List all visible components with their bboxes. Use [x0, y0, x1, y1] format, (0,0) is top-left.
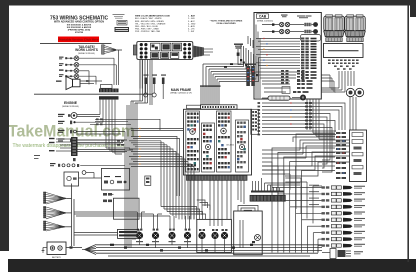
legend text block — [135, 15, 196, 34]
svg-text:3 - ACC: 3 - ACC — [188, 20, 196, 23]
central right connector — [251, 109, 259, 134]
headlight assembly left — [324, 15, 345, 42]
work light rows (4 lamps) — [59, 56, 116, 79]
page border right line — [407, 5, 409, 262]
wire to solenoid row 5 — [296, 212, 322, 214]
cab lamp row labels — [281, 15, 312, 19]
left bus down — [72, 184, 75, 247]
wire to solenoid row 9 — [318, 238, 322, 240]
fuel shutoff box — [102, 168, 130, 190]
cab lower pin rows — [293, 71, 309, 93]
solenoid feed bus — [74, 212, 170, 235]
cab interior lower wires — [256, 72, 300, 94]
cab wire rows to right connectors — [256, 39, 300, 69]
left small box component — [64, 171, 102, 186]
cab right connector column — [301, 38, 317, 70]
inline connector pair above central assembly — [245, 64, 256, 87]
svg-text:BATTERY: BATTERY — [52, 256, 62, 259]
bottom strip drop wires — [190, 180, 244, 226]
cab to center staircase — [203, 36, 259, 87]
fan-out connector F3 — [44, 221, 72, 231]
solenoid B1 — [255, 235, 261, 241]
central pin column 1 — [186, 111, 200, 172]
bulb 4 — [356, 18, 363, 31]
wires instrument to central — [262, 134, 350, 176]
wire to solenoid row 3 — [284, 199, 322, 201]
fuse drop bundle — [131, 59, 152, 105]
instrument left connector stack — [336, 132, 346, 179]
svg-text:CAB: CAB — [259, 15, 267, 19]
center-left wire rows — [129, 141, 206, 220]
headlight round plugs — [346, 88, 363, 96]
module harness left pin pairs — [258, 102, 261, 135]
fuse panel FP1 — [133, 42, 192, 60]
wire to solenoid row 10 — [318, 245, 322, 247]
fuse cell F3 — [171, 52, 179, 58]
center-left wire ticks — [117, 140, 124, 146]
note text — [210, 20, 243, 26]
temp sender — [58, 130, 125, 134]
svg-text:1 - BAT: 1 - BAT — [188, 15, 196, 18]
lamp L1 — [74, 56, 79, 61]
scan frame left bar — [0, 0, 9, 251]
svg-text:YEL - YELLOW / ORG - ORANGE: YEL - YELLOW / ORG - ORANGE — [135, 22, 166, 25]
cab dome lamp row2 — [262, 29, 318, 34]
svg-text:S/N 515830001 & ABOVE: S/N 515830001 & ABOVE — [67, 23, 92, 26]
barcode riser bundle — [201, 87, 219, 105]
tailgate fan connector — [102, 45, 123, 54]
alternator — [58, 113, 100, 119]
bottom hatched strip — [250, 191, 285, 202]
main left bus — [125, 101, 137, 248]
bottom bus — [96, 245, 322, 256]
row left labels — [309, 185, 319, 205]
colored pin accents central columns — [187, 116, 246, 168]
small sensor mid — [145, 176, 151, 185]
engine connector bar below divider — [99, 96, 119, 99]
solenoid box A — [197, 219, 232, 252]
central pin column 4 — [236, 120, 249, 172]
CAB label — [257, 14, 274, 23]
central pin column 3 — [217, 111, 235, 172]
solenoid row — [34, 155, 191, 248]
wire to solenoid row 4 — [290, 206, 322, 208]
tailgate section header — [75, 45, 98, 55]
central bottom strip — [187, 175, 248, 180]
svg-text:(SERIAL 512816001): (SERIAL 512816001) — [62, 105, 79, 108]
tailgate connector bar CN1 — [99, 85, 119, 93]
cab wiper motor cylinder — [262, 96, 290, 100]
fan-out connector F1 — [44, 192, 72, 204]
tailgate right bus — [89, 50, 142, 89]
key switch component — [234, 44, 244, 65]
central pin column 2 — [202, 123, 215, 172]
wires cab right exits — [322, 75, 337, 92]
relay cell R1 — [151, 43, 160, 51]
svg-text:PNK - PINK / GRY - GRAY: PNK - PINK / GRY - GRAY — [135, 28, 159, 31]
starter connector — [58, 121, 103, 125]
wires cab bottom to instrument box — [307, 97, 356, 139]
main frame sensors — [144, 75, 167, 100]
title 753 WIRING SCHEMATIC — [50, 16, 108, 35]
CAB box — [254, 13, 321, 100]
svg-text:* NOTE: THESE ARE NOT WIRES: * NOTE: THESE ARE NOT WIRES — [210, 20, 243, 23]
left lamp row components — [50, 163, 125, 167]
svg-text:(PRINTED APRIL 2005): (PRINTED APRIL 2005) — [68, 29, 91, 32]
cab lighter plug — [292, 95, 306, 101]
svg-text:6724799: 6724799 — [75, 31, 84, 34]
module harness rows below cab — [262, 103, 345, 172]
headlight base — [324, 31, 345, 37]
strip riser wires — [253, 178, 301, 191]
bulb 3 — [347, 18, 354, 31]
bulb 1 — [326, 18, 333, 31]
headlight base 2 — [345, 31, 366, 37]
fuel gauge connector bottom right — [322, 249, 363, 259]
lamp L4 — [74, 74, 79, 79]
engine drop bus — [100, 100, 133, 154]
fuse cell F1 — [151, 52, 159, 58]
red printable-version box — [58, 37, 99, 43]
right mid riser bundle — [262, 146, 322, 223]
wire to solenoid row 6 — [302, 219, 322, 221]
ground symbol battery — [42, 248, 45, 253]
bus junction blobs — [110, 244, 253, 252]
cab inner pin columns lower right — [281, 70, 305, 84]
lamp L3 — [74, 69, 79, 74]
relay cell R2 — [161, 43, 170, 51]
battery box — [42, 242, 82, 259]
solenoid box B — [234, 206, 263, 255]
wire to solenoid row 7 — [307, 225, 321, 227]
inline multipin connector left — [49, 137, 127, 161]
cab dome lamp row1 — [262, 22, 318, 27]
svg-text:Printable Version Click Here: Printable Version Click Here — [58, 38, 98, 42]
svg-text:WIRE COLOR ABBREVIATION CODE: WIRE COLOR ABBREVIATION CODE — [135, 15, 171, 18]
fuse cell F2 — [161, 52, 169, 58]
svg-text:(SERIAL 512816001): (SERIAL 512816001) — [78, 52, 95, 55]
fuse panel right connector — [193, 46, 213, 58]
svg-text:ENGINE: ENGINE — [64, 101, 78, 105]
scan frame top-right notch — [410, 0, 416, 17]
cab heater box — [301, 35, 321, 42]
main frame header — [170, 88, 192, 95]
svg-text:MAIN FRAME: MAIN FRAME — [171, 88, 191, 92]
solenoid row connectors — [322, 186, 366, 248]
svg-text:WITH ADVANCED HAND CONTROL OPT: WITH ADVANCED HAND CONTROL OPTION — [54, 21, 104, 24]
module pin rows — [328, 60, 359, 70]
svg-text:(SERIAL 512816001 & UP): (SERIAL 512816001 & UP) — [170, 92, 192, 95]
harness color ticks — [139, 128, 141, 165]
fuse panel pin dots right — [183, 43, 191, 59]
center-left harness fan — [129, 129, 194, 220]
seat bar note mini table — [113, 14, 130, 32]
svg-text:(SERIAL 512816001): (SERIAL 512816001) — [257, 19, 273, 22]
section divider engine — [34, 93, 152, 95]
solenoid A1 — [198, 232, 205, 239]
riser top ticks — [200, 85, 221, 86]
nested corners to solenoid box A — [170, 200, 210, 210]
solenoid A3 — [221, 232, 228, 239]
cab left bus — [256, 25, 260, 99]
svg-text:BLK - BLACK / WHT - WHITE: BLK - BLACK / WHT - WHITE — [135, 17, 162, 20]
headlight drop bundle — [322, 71, 355, 92]
left tiny labels — [34, 155, 40, 159]
svg-text:ON ALL MACHINES: ON ALL MACHINES — [216, 22, 236, 25]
relay cell R3 — [172, 43, 181, 51]
wire to solenoid row 2 — [278, 193, 322, 195]
fan-out connector F2 — [44, 207, 72, 219]
solenoid A2 — [211, 232, 218, 239]
headlight assembly right — [345, 15, 366, 42]
module harness mid ticks — [305, 102, 312, 128]
central assembly main box — [184, 109, 252, 175]
bulb 2 — [335, 18, 342, 31]
harness breakout fan — [82, 245, 96, 255]
right column rows — [272, 148, 365, 259]
sw relay block — [118, 229, 140, 238]
hand control module box — [324, 44, 364, 58]
lamp L2 — [74, 63, 79, 68]
instrument stack color dots — [337, 136, 345, 173]
central assembly top strip — [187, 105, 238, 109]
wire to solenoid row 1 — [272, 187, 322, 189]
watermark TakeManual.com — [8, 122, 135, 150]
svg-text:5 - AUX: 5 - AUX — [188, 25, 196, 28]
svg-text:CE-3456: CE-3456 — [226, 145, 235, 147]
relay box K1 — [103, 193, 139, 219]
engine header — [62, 101, 79, 108]
engine harness bundle — [90, 119, 160, 130]
svg-text:7 - SW: 7 - SW — [188, 31, 194, 33]
rule under title — [40, 43, 112, 45]
lamp labels/pins — [59, 57, 72, 78]
cab row color ticks — [263, 38, 292, 125]
svg-text:S/N 516220001 & ABOVE: S/N 516220001 & ABOVE — [67, 26, 92, 29]
scan frame top bar — [0, 0, 416, 6]
cab staircase junction blobs — [224, 59, 258, 76]
svg-text:PUR - PURPLE / TAN - TAN: PUR - PURPLE / TAN - TAN — [135, 30, 161, 33]
oil pressure sender — [58, 138, 127, 142]
instrument panel box — [350, 130, 367, 182]
wire to solenoid row 8 — [313, 232, 321, 234]
svg-text:WORK LIGHTS: WORK LIGHTS — [75, 48, 98, 52]
horn speaker — [56, 77, 102, 90]
fuse panel pin dots left — [140, 43, 148, 59]
scan frame bottom bar — [8, 259, 416, 272]
